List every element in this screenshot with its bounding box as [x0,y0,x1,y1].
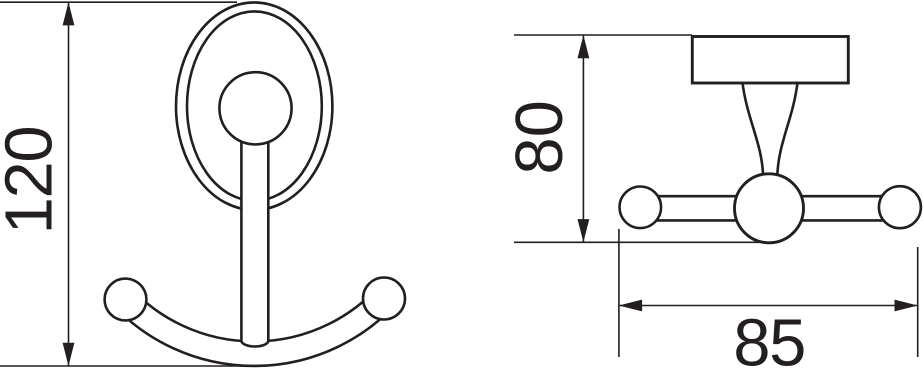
stem right profile curve (side view) [777,82,797,178]
center stem (front view, white filled over arcs) [241,100,268,346]
center boss ball (side view) [735,174,804,243]
svg-text:80: 80 [502,100,577,175]
extension line right of 85 dimension [917,247,919,357]
stem left profile curve (side view) [742,82,763,178]
extension line top (front view, top of oval) [0,1,237,3]
right end ball (front view) [363,278,405,320]
dimension line 85 horizontal [619,305,918,307]
svg-text:120: 120 [0,127,67,235]
hook arm lower arc (front view) [110,299,400,366]
extension line bottom (side view, bottom of boss ball) [514,241,760,243]
right end ball (side view) [879,186,921,228]
outer ellipse of backplate (front view) [176,2,332,210]
dimension line 80 vertical [582,35,584,242]
center boss circle (front view) [219,72,291,144]
wall plate rectangle (side view) [692,37,848,84]
cross bar top line (side view) [640,195,900,198]
arrowhead top of 80 dimension [578,35,590,58]
hook arm upper arc (front view) [128,283,381,341]
inner ellipse of backplate (front view) [187,11,322,200]
arrowhead left of 85 dimension [619,300,642,312]
extension line bottom (front view, bottom of hook arc) [0,365,252,367]
arrowhead bottom of 120 dimension [63,343,75,366]
cross bar bottom line (side view) [640,219,900,222]
svg-text:85: 85 [733,306,805,371]
left end ball (front view) [105,279,147,321]
arrowhead top of 120 dimension [63,2,75,25]
extension line top (side view, wall plate top) [514,34,692,36]
extension line left of 85 dimension [618,229,620,357]
left end ball (side view) [620,187,662,229]
arrowhead right of 85 dimension [895,300,918,312]
dimension line 120 vertical [68,2,70,366]
arrowhead bottom of 80 dimension [578,219,590,242]
